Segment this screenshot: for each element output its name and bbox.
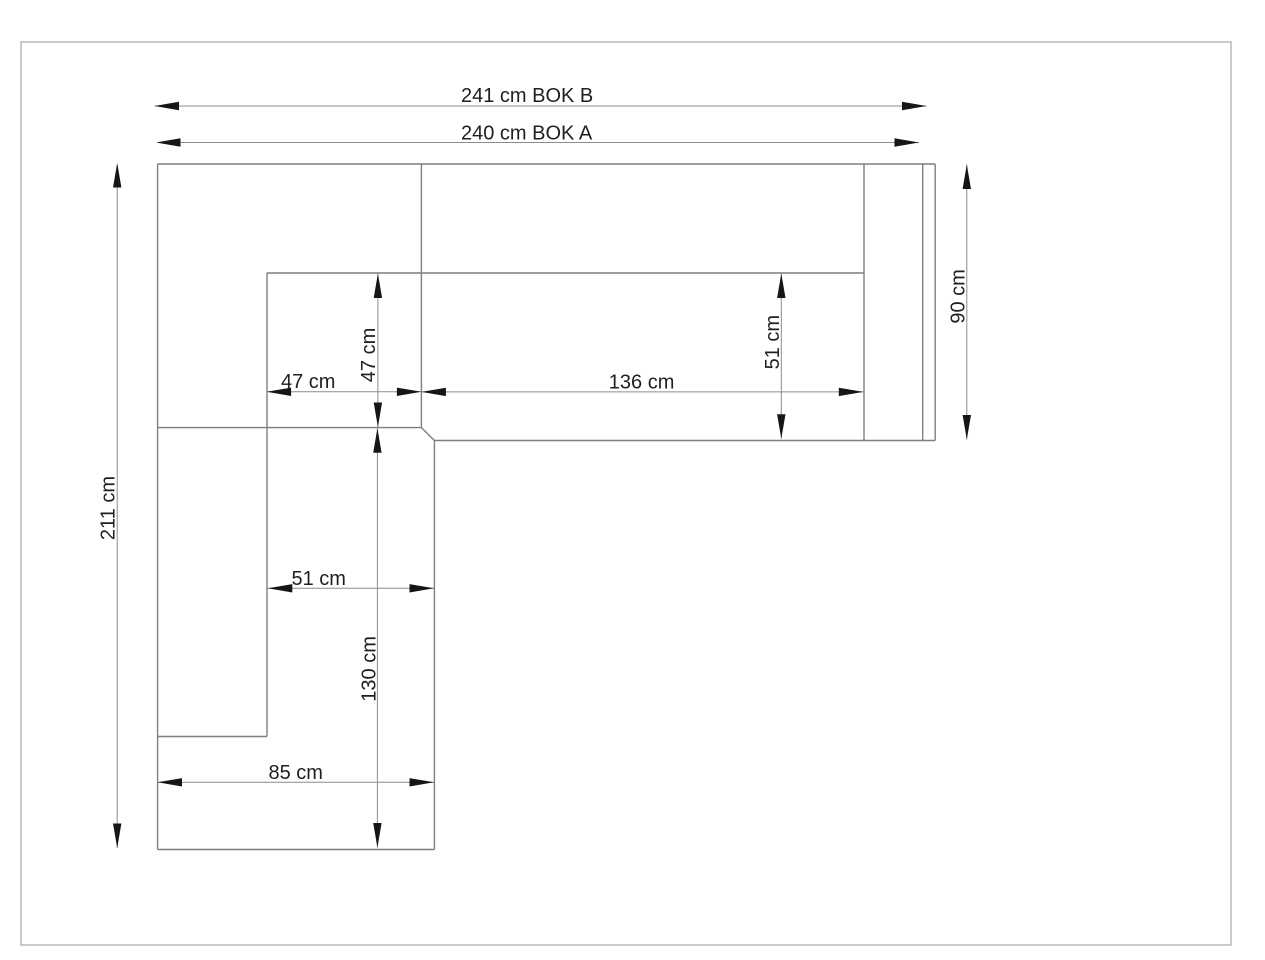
sofa outline: right edge of left band [433,441,435,850]
dimension 241 arrow left [155,102,180,110]
corner seam vertical [420,164,422,428]
dimension 47 cm vertical line [377,274,379,428]
dimension 51 vertical arrow up [777,274,785,299]
svg-text:211 cm: 211 cm [98,476,120,540]
dimension 211 arrow up [113,163,121,188]
svg-text:51 cm: 51 cm [292,568,346,590]
dimension 240 arrow right [895,138,920,146]
dimension 47 cm horizontal line [267,391,422,393]
dimension 85 arrow right [410,778,435,786]
dimension 51 vertical arrow down [777,414,785,439]
dimension 241 arrow right [902,102,927,110]
dimension 130 arrow up [373,428,381,453]
dimension 47 horizontal arrow left [267,388,292,396]
dimension 47 vertical arrow up [374,274,382,299]
svg-text:136 cm: 136 cm [609,372,675,394]
dimension 90 arrow up [963,165,971,190]
dimension 90 arrow down [963,415,971,440]
sofa outline: corner chamfer [421,428,434,441]
dimension 51 horizontal arrow right [410,584,435,592]
svg-text:90 cm: 90 cm [948,269,970,323]
sofa outline: right edge [934,164,936,441]
svg-text:85 cm: 85 cm [269,762,323,784]
svg-text:130 cm: 130 cm [358,636,380,702]
svg-text:47 cm: 47 cm [358,328,380,382]
sofa outline: top edge [158,163,936,165]
svg-text:240 cm BOK A: 240 cm BOK A [461,123,593,145]
divider near right edge [922,164,924,441]
dimension 51 horizontal arrow left [268,584,293,592]
sofa outline: left edge [157,164,159,850]
dimension 51 cm vertical line [780,274,782,439]
dimension 240 arrow left [156,138,181,146]
dimension 51 cm horizontal line [268,587,434,589]
sofa outline: bottom edge of left band [158,849,435,851]
corner seam horizontal [158,427,422,429]
dimension 240 cm BOK A line [158,142,919,144]
svg-text:47 cm: 47 cm [281,371,335,393]
dimension 136 arrow right [839,388,864,396]
sofa outline: bottom edge of top band [434,440,935,442]
dimension 241 cm BOK B line [155,105,927,107]
inner bottom line of left band [158,736,267,738]
inner backrest line of top band [267,272,864,274]
dimension 136 cm line [421,391,863,393]
right armrest divider [863,164,865,441]
dimension 47 horizontal arrow right [397,388,422,396]
dimension 211 arrow down [113,824,121,849]
svg-text:51 cm: 51 cm [762,315,784,369]
dimension 136 arrow left [421,388,446,396]
svg-text:241 cm BOK B: 241 cm BOK B [461,85,593,107]
dimension 90 cm line [966,165,968,440]
dimension 130 cm line [376,428,378,847]
dimension 130 arrow down [373,823,381,848]
dimension 211 cm line [116,165,118,848]
dimension 85 cm line [158,781,435,783]
dimension 85 arrow left [158,778,183,786]
dimension 47 vertical arrow down [374,403,382,428]
inner backrest line of left band (vertical) [266,273,268,737]
